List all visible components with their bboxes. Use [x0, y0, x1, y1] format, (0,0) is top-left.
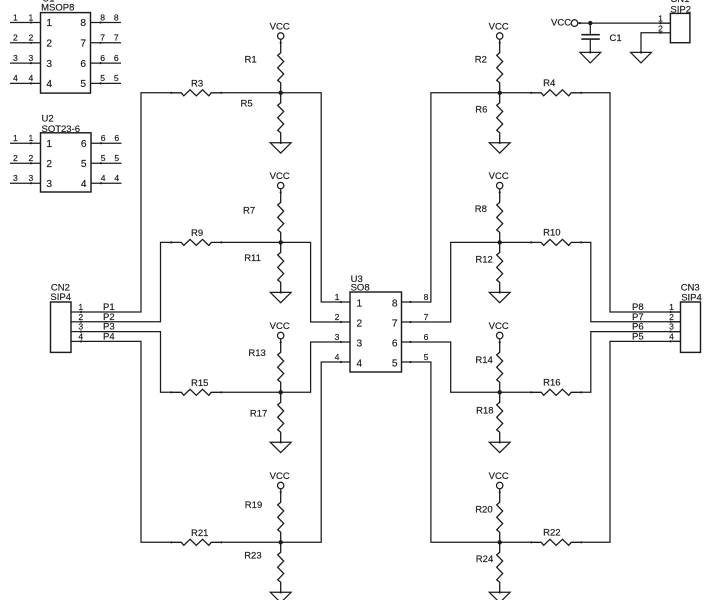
svg-text:8: 8: [114, 12, 119, 22]
U1 pin 7 (right): [80, 33, 121, 50]
net label P1: [103, 302, 115, 313]
svg-text:7: 7: [424, 312, 429, 322]
svg-text:5: 5: [424, 352, 429, 362]
svg-text:2: 2: [29, 33, 34, 43]
resistor R2 (pull-up): [497, 43, 503, 93]
IC U1 value label MSOP8: [41, 2, 74, 13]
resistor R6 (pull-down): [497, 93, 503, 144]
ground (below R6): [489, 142, 510, 153]
wire rail3 to CN3 pin 3 (net P6): [581, 332, 680, 393]
svg-text:5: 5: [114, 73, 119, 83]
svg-text:6: 6: [114, 133, 119, 143]
net label P5: [632, 331, 644, 342]
svg-text:6: 6: [100, 53, 105, 63]
U1 pin 3 (left): [10, 53, 52, 70]
wire rail1 to CN3 pin 1 (net P8): [581, 93, 680, 312]
CN3 pin 4: [669, 331, 680, 342]
wire rail4 to CN3 pin 4 (net P5): [581, 341, 680, 542]
connector CN3 body: [681, 302, 701, 352]
R5 ref label: [241, 99, 253, 110]
R18 ref label: [476, 406, 493, 417]
svg-text:VCC: VCC: [489, 171, 509, 182]
U1 pin 4 (left): [10, 73, 52, 90]
svg-text:SIP4: SIP4: [50, 292, 71, 303]
svg-text:7: 7: [80, 39, 86, 50]
wire U3 pin 6 to rail3: [402, 342, 532, 392]
svg-text:1: 1: [13, 133, 18, 143]
svg-text:R13: R13: [248, 348, 265, 359]
CN3 pin 1: [669, 302, 680, 313]
wire rail2 to CN3 pin 2 (net P7): [581, 242, 680, 321]
svg-text:3: 3: [29, 53, 34, 63]
power VCC (above R7): [270, 171, 290, 193]
resistor R22: [530, 539, 582, 545]
svg-text:1: 1: [29, 12, 34, 22]
connector CN1 ref label (clipped): [670, 0, 689, 5]
resistor R9: [170, 239, 222, 245]
svg-text:R11: R11: [244, 253, 261, 264]
svg-text:4: 4: [669, 331, 674, 341]
CN2 pin 3: [71, 322, 83, 333]
wire CN1 pin 2 to ground: [640, 33, 661, 54]
power VCC (above R2): [489, 21, 509, 44]
svg-text:P4: P4: [103, 331, 115, 342]
R15 ref label: [191, 378, 208, 389]
resistor R17 (pull-down): [278, 392, 284, 443]
junction node R13/R17: [279, 390, 283, 394]
ground (below R11): [270, 291, 291, 302]
R22 ref label: [543, 528, 560, 539]
svg-text:2: 2: [658, 23, 663, 33]
svg-text:2: 2: [335, 312, 340, 322]
junction node R7/R11: [279, 240, 283, 244]
svg-text:R5: R5: [241, 99, 253, 110]
resistor R14 (pull-up): [497, 342, 503, 392]
svg-text:8: 8: [80, 18, 86, 29]
svg-text:R3: R3: [191, 78, 203, 89]
svg-text:VCC: VCC: [489, 21, 509, 32]
svg-text:C1: C1: [610, 33, 622, 44]
svg-text:2: 2: [13, 153, 18, 163]
resistor R11 (pull-down): [278, 242, 284, 293]
svg-text:3: 3: [46, 59, 52, 70]
capacitor C1: [581, 23, 600, 53]
connector CN1 value label SIP2: [670, 5, 691, 16]
svg-text:4: 4: [46, 79, 52, 90]
svg-text:R6: R6: [475, 105, 487, 116]
R23 ref label: [244, 551, 261, 562]
resistor R24 (pull-down): [497, 542, 503, 593]
U3 pin 8 (right): [392, 292, 429, 310]
U3 pin 5 (right): [392, 352, 429, 370]
R13 ref label: [248, 348, 265, 359]
svg-text:VCC: VCC: [270, 21, 290, 32]
R20 ref label: [475, 505, 492, 516]
U2 pin 2 (left): [10, 153, 52, 170]
svg-text:4: 4: [101, 173, 106, 183]
net label P7: [632, 312, 644, 323]
ground (below CN1 pin 2): [631, 51, 652, 63]
svg-text:MSOP8: MSOP8: [41, 2, 74, 13]
svg-text:R23: R23: [244, 551, 261, 562]
svg-text:R22: R22: [543, 528, 560, 539]
ground (below R5): [270, 142, 291, 153]
U3 pin 3 (left): [335, 332, 363, 350]
ground (below R23): [270, 591, 291, 600]
wire U3 pin 5 to rail4: [402, 362, 532, 542]
connector CN2 body: [51, 302, 72, 352]
wire U3 pin 7 to rail2: [402, 242, 532, 322]
svg-text:2: 2: [13, 33, 18, 43]
R1 ref label: [245, 54, 257, 65]
svg-text:7: 7: [114, 33, 119, 43]
svg-text:5: 5: [80, 79, 86, 90]
R4 ref label: [543, 78, 555, 89]
R2 ref label: [475, 54, 487, 65]
svg-text:VCC: VCC: [551, 18, 571, 29]
transistor U2 body: [41, 133, 92, 192]
net label P4: [103, 331, 115, 342]
svg-text:R12: R12: [475, 255, 492, 266]
IC U2 ref label: [42, 113, 54, 124]
svg-text:VCC: VCC: [489, 471, 509, 482]
junction VCC/C1 node: [588, 21, 592, 25]
svg-text:R14: R14: [475, 355, 492, 366]
CN3 pin 2: [669, 312, 680, 323]
R6 ref label: [475, 105, 487, 116]
connector CN2 ref label: [51, 282, 70, 293]
resistor R18 (pull-down): [497, 392, 503, 443]
U2 pin 5 (right): [81, 153, 122, 170]
svg-text:5: 5: [100, 73, 105, 83]
resistor R20 (pull-up): [497, 492, 503, 542]
net label P2: [103, 312, 115, 323]
svg-text:R1: R1: [245, 54, 257, 65]
resistor R23 (pull-down): [278, 542, 284, 593]
U3 pin 6 (right): [392, 332, 429, 350]
svg-text:R19: R19: [245, 500, 262, 511]
svg-text:R7: R7: [243, 205, 255, 216]
R21 ref label: [191, 528, 208, 539]
power VCC (above R20): [489, 471, 509, 494]
svg-text:2: 2: [78, 312, 83, 322]
connector CN2 value label SIP4: [50, 292, 71, 303]
IC U3 ref label: [351, 274, 363, 285]
svg-text:4: 4: [335, 352, 340, 362]
ground (below R18): [489, 441, 510, 452]
U3 pin 4 (left): [335, 352, 363, 370]
wire U3 pin 8 to rail1: [402, 93, 532, 302]
R16 ref label: [543, 378, 560, 389]
svg-text:7: 7: [392, 319, 398, 330]
U2 pin 4 (right): [81, 173, 122, 190]
ground (below R24): [489, 591, 510, 600]
wire rail2 to U3 pin 2: [221, 242, 350, 322]
resistor R13 (pull-up): [278, 342, 284, 392]
svg-text:6: 6: [424, 332, 429, 342]
U1 pin 8 (right): [80, 12, 121, 29]
junction node R14/R18: [498, 390, 502, 394]
svg-text:1: 1: [46, 18, 52, 29]
svg-text:6: 6: [81, 139, 87, 150]
wire rail1 to U3 pin 1: [221, 93, 350, 302]
svg-text:VCC: VCC: [489, 321, 509, 332]
connector CN1 body: [670, 13, 690, 42]
junction node R2/R6: [498, 91, 502, 95]
resistor R3: [170, 90, 222, 96]
wire rail3 to U3 pin 3: [221, 342, 350, 392]
CN1 pin 2: [658, 23, 670, 34]
U2 pin 6 (right): [81, 133, 122, 150]
svg-text:1: 1: [357, 299, 363, 310]
resistor R16: [530, 389, 582, 395]
R3 ref label: [191, 78, 203, 89]
wire rail4 to U3 pin 4: [221, 362, 350, 542]
IC U3 value label SO8: [351, 283, 370, 294]
svg-text:2: 2: [357, 319, 363, 330]
svg-text:2: 2: [46, 159, 52, 170]
R11 ref label: [244, 253, 261, 264]
wire CN2 pin2 to net P2 corner: [81, 242, 171, 321]
U2 pin 1 (left): [10, 133, 52, 150]
svg-text:6: 6: [114, 53, 119, 63]
op-amp U3 body: [350, 292, 402, 372]
U1 pin 6 (right): [80, 53, 121, 70]
U3 pin 7 (right): [392, 312, 429, 330]
svg-text:5: 5: [114, 153, 119, 163]
svg-text:1: 1: [13, 12, 18, 22]
R19 ref label: [245, 500, 262, 511]
svg-text:VCC: VCC: [270, 171, 290, 182]
ground (below R17): [270, 441, 291, 452]
svg-text:5: 5: [101, 153, 106, 163]
connector CN3 value label SIP4: [681, 292, 702, 303]
svg-text:1: 1: [658, 13, 663, 23]
svg-text:4: 4: [13, 73, 18, 83]
svg-text:3: 3: [357, 339, 363, 350]
svg-text:8: 8: [392, 299, 398, 310]
svg-text:4: 4: [29, 73, 34, 83]
wire CN2 pin3 to net P3 corner: [81, 332, 171, 393]
R10 ref label: [543, 228, 560, 239]
svg-text:8: 8: [100, 12, 105, 22]
svg-text:2: 2: [46, 39, 52, 50]
svg-text:3: 3: [669, 322, 674, 332]
CN3 pin 3: [669, 322, 680, 333]
IC U2 value label SOT23-6: [42, 124, 81, 135]
R8 ref label: [475, 204, 487, 215]
resistor R7 (pull-up): [278, 192, 284, 242]
svg-text:R15: R15: [191, 378, 208, 389]
svg-text:R9: R9: [191, 228, 203, 239]
power VCC (above R1): [270, 21, 290, 44]
CN2 pin 4: [71, 331, 83, 342]
svg-text:3: 3: [13, 173, 18, 183]
R9 ref label: [191, 228, 203, 239]
svg-text:4: 4: [114, 173, 119, 183]
resistor R10: [530, 239, 582, 245]
power VCC (top right): [551, 18, 581, 29]
resistor R8 (pull-up): [497, 192, 503, 242]
U3 pin 1 (left): [335, 292, 363, 310]
svg-text:7: 7: [100, 33, 105, 43]
svg-text:6: 6: [80, 59, 86, 70]
svg-text:6: 6: [101, 133, 106, 143]
svg-text:VCC: VCC: [270, 471, 290, 482]
svg-text:R16: R16: [543, 378, 560, 389]
CN2 pin 2: [71, 312, 83, 323]
power VCC (above R13): [270, 321, 290, 344]
U1 pin 1 (left): [10, 12, 52, 29]
power VCC (above R19): [270, 471, 290, 494]
svg-text:8: 8: [424, 292, 429, 302]
svg-text:5: 5: [81, 159, 87, 170]
svg-text:VCC: VCC: [270, 321, 290, 332]
IC U1 ref label: [42, 0, 54, 5]
U2 pin 3 (left): [10, 173, 52, 190]
svg-text:3: 3: [13, 53, 18, 63]
svg-text:1: 1: [29, 133, 34, 143]
R17 ref label: [250, 408, 267, 419]
ground (below R12): [489, 291, 510, 302]
svg-text:3: 3: [46, 179, 52, 190]
R12 ref label: [475, 255, 492, 266]
svg-text:4: 4: [78, 331, 83, 341]
U1 pin 2 (left): [10, 33, 52, 50]
svg-text:R8: R8: [475, 204, 487, 215]
resistor R5 (pull-down): [278, 93, 284, 144]
svg-text:R18: R18: [476, 406, 493, 417]
svg-text:1: 1: [46, 139, 52, 150]
net label P3: [103, 322, 115, 333]
connector CN3 ref label: [681, 282, 700, 293]
C1 value label: [610, 33, 622, 44]
svg-text:U2: U2: [42, 113, 54, 124]
junction node R20/R24: [498, 540, 502, 544]
junction node R19/R23: [279, 540, 283, 544]
svg-text:3: 3: [78, 322, 83, 332]
svg-text:R24: R24: [476, 554, 493, 565]
resistor R21: [170, 539, 222, 545]
resistor R1 (pull-up): [278, 43, 284, 93]
svg-text:R21: R21: [191, 528, 208, 539]
R7 ref label: [243, 205, 255, 216]
net label P8: [632, 302, 644, 313]
wire CN2 pin1 to net P1 corner: [81, 93, 171, 312]
U3 pin 2 (left): [335, 312, 363, 330]
svg-text:R4: R4: [543, 78, 555, 89]
svg-text:P5: P5: [632, 331, 644, 342]
junction node R1/R5: [279, 91, 283, 95]
svg-text:1: 1: [335, 292, 340, 302]
svg-text:3: 3: [335, 332, 340, 342]
svg-text:4: 4: [81, 179, 87, 190]
svg-text:4: 4: [357, 359, 363, 370]
CN2 pin 1: [71, 302, 83, 313]
power VCC (above R8): [489, 171, 509, 193]
R24 ref label: [476, 554, 493, 565]
net label P6: [632, 322, 644, 333]
svg-text:3: 3: [29, 173, 34, 183]
wire VCC to CN1 pin 1: [578, 22, 671, 24]
svg-text:R2: R2: [475, 54, 487, 65]
svg-text:R10: R10: [543, 228, 560, 239]
op-amp U1 body: [41, 13, 91, 94]
svg-text:5: 5: [392, 359, 398, 370]
svg-text:R17: R17: [250, 408, 267, 419]
CN1 pin 1: [658, 13, 670, 24]
ground (below C1): [580, 51, 601, 63]
svg-text:6: 6: [392, 339, 398, 350]
U1 pin 5 (right): [80, 73, 121, 90]
power VCC (above R14): [489, 321, 509, 344]
resistor R4: [530, 90, 582, 96]
R14 ref label: [475, 355, 492, 366]
svg-text:R20: R20: [475, 505, 492, 516]
svg-text:2: 2: [29, 153, 34, 163]
resistor R12 (pull-down): [497, 242, 503, 293]
wire CN2 pin4 to net P4 corner: [81, 341, 171, 542]
svg-text:1: 1: [669, 302, 674, 312]
resistor R19 (pull-up): [278, 492, 284, 542]
svg-text:1: 1: [78, 302, 83, 312]
svg-text:2: 2: [669, 312, 674, 322]
resistor R15: [170, 389, 222, 395]
junction node R8/R12: [498, 240, 502, 244]
